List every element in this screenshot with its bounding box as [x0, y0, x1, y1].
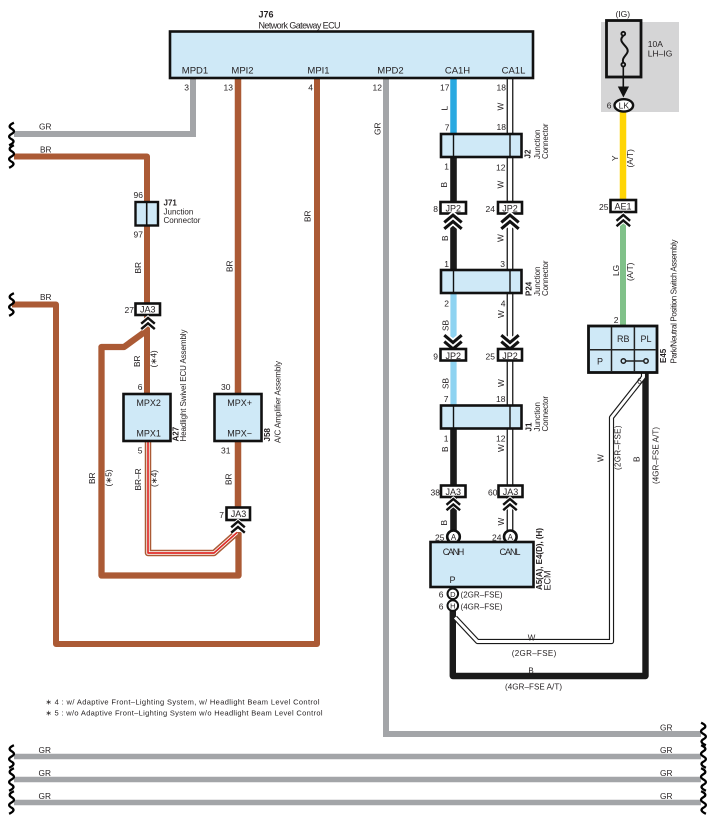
pin number 6 MPX2 — [138, 382, 143, 392]
svg-text:B: B — [439, 182, 449, 188]
label W JA3 60 to circle A — [496, 518, 506, 526]
wire GR from MPD2 pin 12 to bottom right edge — [386, 76, 701, 734]
svg-text:W: W — [496, 181, 506, 189]
pin number 2 E45 — [614, 315, 619, 325]
connector AE1 pin 25 box — [611, 200, 637, 212]
label Connector (J1) — [541, 396, 550, 432]
svg-text:Connector: Connector — [164, 216, 201, 225]
svg-text:P: P — [449, 575, 455, 585]
wire BR branch loop (*5) from JA3 27 down, across, up to JA3 7 — [102, 331, 239, 576]
svg-text:B: B — [439, 520, 449, 526]
svg-text:(A/T): (A/T) — [625, 149, 635, 168]
wire BR-R from MPX1 pin 5 to JA3 7 (brown with red stripe) — [148, 441, 237, 553]
svg-text:1: 1 — [444, 259, 449, 269]
svg-text:CA1H: CA1H — [445, 66, 470, 77]
svg-text:CA1L: CA1L — [502, 66, 526, 77]
svg-text:GR: GR — [39, 768, 51, 778]
pin number 25 JP2 — [486, 352, 496, 362]
label LG on green wire — [611, 265, 621, 276]
label J71 — [164, 199, 178, 208]
switch symbol inside E45 — [621, 359, 648, 363]
svg-text:MPX−: MPX− — [227, 429, 252, 439]
label LH-IG — [648, 49, 673, 59]
svg-text:∗ 5 : w/o Adaptive Front–Light: ∗ 5 : w/o Adaptive Front–Lighting System… — [46, 709, 323, 718]
pin number 5 MPX1 — [138, 446, 143, 456]
wire BR left edge to J71 to JA3 27 to MPX2 pin 6 — [14, 157, 147, 395]
label MPX2 — [136, 398, 161, 408]
label MPX1 — [136, 429, 161, 439]
svg-text:2: 2 — [444, 299, 449, 309]
svg-text:(4GR–FSE): (4GR–FSE) — [461, 603, 503, 612]
svg-text:13: 13 — [224, 83, 234, 93]
svg-text:BR: BR — [40, 145, 52, 155]
pin number 7 J2 — [445, 123, 450, 133]
label W P24 to JP2 25 — [496, 310, 506, 318]
label (2GR-FSE) at D — [461, 591, 503, 600]
label P inside ECM — [449, 575, 455, 585]
svg-text:JA3: JA3 — [140, 305, 156, 315]
junction connector JA3 pin 7 box — [227, 508, 251, 521]
svg-text:W: W — [596, 454, 606, 462]
pin number 38 JA3 — [431, 488, 441, 498]
chevron below JA3 7 — [231, 522, 245, 533]
svg-text:J2: J2 — [524, 149, 533, 158]
label W JP2 25 to J1 — [496, 379, 506, 387]
svg-text:Connector: Connector — [541, 396, 550, 432]
node A circle at ECM pin 25 — [447, 531, 460, 544]
label (4GR-FSE A/T) vertical — [652, 427, 661, 484]
label MPX+ — [227, 398, 252, 408]
fuse output arrow to LK — [618, 67, 629, 98]
label BR on MPI1 wire — [303, 210, 313, 222]
pin number 6 H — [439, 602, 444, 612]
svg-text:(2GR–FSE): (2GR–FSE) — [512, 649, 557, 658]
label JA3 (pin 27 box) — [140, 305, 156, 315]
pin number 18 J2 — [497, 122, 507, 132]
svg-text:3: 3 — [500, 259, 505, 269]
svg-text:30: 30 — [221, 382, 231, 392]
pin number 30 J58 — [221, 382, 231, 392]
pin number 96 J71 — [134, 190, 144, 200]
fuse 10A LH-IG box — [607, 21, 642, 78]
svg-text:18: 18 — [496, 394, 506, 404]
junction connector JP2 pin 24 box — [498, 202, 522, 214]
wire LG green from AE1 to E45 pin 2 — [620, 218, 626, 330]
pin number 2 P24 — [444, 299, 449, 309]
label B JA3 38 to circle A — [439, 520, 449, 526]
junction connector P24 bar — [441, 270, 522, 293]
svg-text:JA3: JA3 — [231, 509, 247, 519]
svg-text:(2GR–FSE): (2GR–FSE) — [461, 591, 503, 600]
label A27 — [172, 426, 181, 441]
label GR bottom right 1 — [660, 723, 672, 733]
svg-text:MPD1: MPD1 — [182, 66, 208, 77]
label A5(A), E4(D), (H) — [535, 528, 544, 590]
svg-text:JP2: JP2 — [446, 351, 462, 361]
label BR on J71-JA3 wire — [133, 262, 143, 274]
break symbol GR right 2 — [701, 745, 706, 768]
svg-text:LK: LK — [619, 100, 630, 110]
label Junction (P24) — [533, 267, 542, 297]
svg-text:MPI2: MPI2 — [231, 66, 253, 77]
svg-text:(∗4): (∗4) — [149, 350, 159, 367]
fuse background panel — [601, 22, 679, 112]
svg-text:18: 18 — [497, 122, 507, 132]
label CANH — [443, 547, 465, 557]
wire B black from ECM pin 6 (H) to E45 pin 6 — [453, 370, 646, 676]
wire GR bottom 1 — [14, 754, 701, 760]
label JA3 (pin 60 box) — [503, 487, 519, 497]
svg-text:B: B — [528, 667, 533, 676]
junction connector J1 bar — [441, 406, 522, 429]
label J76 — [259, 10, 274, 20]
label Junction (J1) — [533, 402, 542, 432]
wire W white from ECM pin 6 (D) to E45 pin 6 — [455, 372, 644, 642]
svg-text:Connector: Connector — [541, 260, 550, 296]
label (*5) — [104, 469, 114, 486]
pin number 24 JP2 — [486, 204, 496, 214]
pin number 12 J1 — [496, 434, 506, 444]
svg-text:JA3: JA3 — [446, 487, 462, 497]
svg-text:E45: E45 — [659, 348, 668, 363]
label Y on yellow wire — [610, 155, 620, 161]
svg-text:W: W — [528, 634, 536, 643]
label AE1 — [614, 202, 631, 212]
junction connector JA3 pin 38 box — [441, 486, 466, 498]
svg-text:27: 27 — [125, 305, 135, 315]
svg-text:2: 2 — [614, 315, 619, 325]
svg-text:W: W — [496, 103, 506, 111]
label (4GR-FSE) at H — [461, 603, 503, 612]
svg-text:W: W — [496, 379, 506, 387]
svg-text:25: 25 — [486, 352, 496, 362]
connector J58 A/C Amplifier box — [215, 394, 262, 441]
label Junction (J2) — [533, 130, 542, 160]
svg-text:Network Gateway ECU: Network Gateway ECU — [259, 21, 341, 31]
label Junction (J71) — [164, 208, 194, 217]
label B J1 to JA3 38 — [440, 446, 450, 452]
svg-text:MPX1: MPX1 — [136, 429, 161, 439]
wire B black from J2 to P24 — [450, 145, 457, 281]
pin number 31 J58 — [221, 446, 231, 456]
svg-text:JP2: JP2 — [502, 204, 518, 214]
svg-text:5: 5 — [138, 446, 143, 456]
label P24 — [525, 281, 534, 296]
svg-text:H: H — [450, 602, 455, 611]
label B J2 to JP2 8 — [439, 182, 449, 188]
svg-text:J76: J76 — [259, 10, 274, 20]
svg-text:ECM: ECM — [543, 571, 553, 591]
svg-text:PL: PL — [640, 334, 651, 344]
label BR J58 to JA3 7 — [224, 473, 234, 485]
pin name CA1H — [445, 66, 470, 77]
svg-text:B: B — [440, 235, 450, 241]
label GR bottom right 4 — [660, 791, 672, 801]
pin number 6 LK — [607, 101, 612, 111]
wire L blue from CA1H pin 17 to J2 — [450, 76, 457, 145]
pin number 6 E45 — [637, 376, 642, 386]
svg-text:JP2: JP2 — [502, 351, 518, 361]
label GR bottom right 2 — [660, 745, 672, 755]
pin number 4 P24 — [501, 299, 506, 309]
svg-text:Park/Neutral Position Switch A: Park/Neutral Position Switch Assembly — [670, 240, 679, 364]
svg-text:JP2: JP2 — [446, 204, 462, 214]
pin number 1 J1 — [444, 434, 449, 444]
svg-text:10A: 10A — [648, 39, 663, 49]
label B on black vertical wire — [632, 456, 642, 462]
label J2 — [524, 149, 533, 158]
svg-text:GR: GR — [373, 123, 383, 135]
break symbol GR top left — [9, 123, 14, 146]
pin number 24 ECM — [492, 533, 502, 543]
label BR top left — [40, 145, 52, 155]
label W J1 to JA3 60 — [496, 444, 506, 452]
svg-text:6: 6 — [607, 101, 612, 111]
svg-text:BR: BR — [303, 210, 313, 222]
junction connector J2 bar — [441, 134, 522, 157]
svg-text:(4GR–FSE A/T): (4GR–FSE A/T) — [652, 427, 661, 484]
node label A (CANL) — [508, 533, 514, 542]
node D circle at ECM pin 6 — [448, 589, 459, 600]
ECM box — [431, 542, 534, 587]
label B on ECM-E45 black wire horizontal — [528, 667, 533, 676]
svg-text:(IG): (IG) — [615, 9, 630, 19]
connector LK oval — [615, 99, 634, 111]
svg-text:25: 25 — [435, 533, 445, 543]
svg-text:W: W — [496, 444, 506, 452]
pin number 18 — [497, 83, 507, 93]
wire W white from CA1L pin 18 to ECM CANL circle A — [507, 76, 514, 532]
label (IG) — [615, 9, 630, 19]
svg-text:MPD2: MPD2 — [377, 66, 403, 77]
svg-text:1: 1 — [444, 434, 449, 444]
label Connector (J2) — [541, 123, 550, 159]
label JP2 (pin 24 box) — [502, 204, 518, 214]
label GR top left — [39, 122, 51, 132]
label Park/Neutral Position Switch Assembly — [670, 240, 679, 364]
label Connector (J71) — [164, 216, 201, 225]
label W on ECM-E45 white wire horizontal — [528, 634, 536, 643]
label J58 — [263, 428, 272, 442]
pin number 13 — [224, 83, 234, 93]
svg-text:3: 3 — [184, 83, 189, 93]
label BR-R — [133, 468, 143, 490]
wire B black from J1 to ECM CANH circle A — [450, 417, 457, 532]
pin number 1 J2 — [444, 162, 449, 172]
svg-text:17: 17 — [440, 83, 450, 93]
break symbol BR mid left — [9, 293, 14, 316]
svg-text:(2GR–FSE): (2GR–FSE) — [614, 425, 623, 470]
label (*4) BR-R — [149, 470, 159, 487]
svg-text:24: 24 — [486, 204, 496, 214]
label W J2 to JP2 24 — [496, 181, 506, 189]
label (A/T) green — [625, 262, 635, 281]
chevron below AE1 — [617, 215, 631, 226]
label (A/T) yellow — [625, 149, 635, 168]
svg-text:1: 1 — [444, 162, 449, 172]
junction connector JA3 pin 60 box — [499, 486, 523, 498]
svg-text:7: 7 — [445, 123, 450, 133]
label BR mid left — [40, 292, 52, 302]
pin number 25 AE1 — [599, 202, 609, 212]
chevron below JP2 24 — [501, 215, 518, 229]
label GR bottom left 2 — [39, 745, 51, 755]
svg-text:6: 6 — [439, 602, 444, 612]
svg-text:B: B — [440, 446, 450, 452]
svg-text:(∗4): (∗4) — [149, 470, 159, 487]
svg-text:J71: J71 — [164, 199, 178, 208]
svg-text:4: 4 — [501, 299, 506, 309]
svg-text:4: 4 — [308, 83, 313, 93]
svg-text:W: W — [496, 518, 506, 526]
label GR on MPD2 wire — [373, 123, 383, 135]
svg-text:BR: BR — [132, 355, 142, 367]
label L on CA1H wire — [440, 106, 450, 111]
svg-text:BR: BR — [224, 473, 234, 485]
svg-text:P: P — [597, 357, 603, 367]
pin name PL — [640, 334, 651, 344]
chevron below JA3 38 — [447, 499, 461, 510]
label (2GR-FSE) vertical — [614, 425, 623, 470]
svg-text:∗ 4 : w/ Adaptive Front–Lighti: ∗ 4 : w/ Adaptive Front–Lighting System,… — [46, 698, 320, 707]
pin number 27 JA3 — [125, 305, 135, 315]
junction connector J71 box — [136, 202, 159, 226]
svg-text:12: 12 — [373, 83, 383, 93]
svg-text:MPX+: MPX+ — [227, 398, 252, 408]
svg-text:AE1: AE1 — [614, 202, 631, 212]
pin number 7 J1 — [444, 394, 449, 404]
svg-text:GR: GR — [660, 745, 672, 755]
svg-text:6: 6 — [138, 382, 143, 392]
svg-text:12: 12 — [496, 163, 506, 173]
svg-text:25: 25 — [599, 202, 609, 212]
chevron below JA3 27 — [141, 318, 155, 329]
label J1 — [525, 422, 534, 431]
label Connector (P24) — [541, 260, 550, 296]
svg-text:24: 24 — [492, 533, 502, 543]
svg-text:GR: GR — [39, 791, 51, 801]
svg-text:97: 97 — [134, 230, 144, 240]
pin number 18 J1 — [496, 394, 506, 404]
pin number 12 J2 — [496, 163, 506, 173]
pin name MPI1 — [307, 66, 329, 77]
svg-text:SB: SB — [441, 377, 451, 389]
svg-text:60: 60 — [488, 488, 498, 498]
pin number 3 — [184, 83, 189, 93]
svg-text:LG: LG — [611, 265, 621, 276]
label JA3 (pin 38 box) — [446, 487, 462, 497]
svg-text:W: W — [496, 234, 506, 242]
svg-text:RB: RB — [617, 334, 630, 344]
label CANL — [500, 547, 521, 557]
pin number 60 JA3 — [488, 488, 498, 498]
label SB JP2 9 to J1 — [441, 377, 451, 389]
label GR bottom right 3 — [660, 768, 672, 778]
label Network Gateway ECU — [259, 21, 341, 31]
break symbol GR bottom left 2 — [9, 768, 14, 791]
svg-text:(A/T): (A/T) — [625, 262, 635, 281]
svg-text:GR: GR — [660, 791, 672, 801]
label E45 — [659, 348, 668, 363]
svg-text:BR–R: BR–R — [133, 468, 143, 490]
chevron below JP2 8 — [444, 215, 461, 229]
label ECM — [543, 571, 553, 591]
pin name MPD2 — [377, 66, 403, 77]
node H circle at ECM pin 6 — [448, 600, 459, 611]
wire Y yellow from fuse LK to AE1 — [620, 108, 627, 206]
svg-text:BR: BR — [87, 472, 97, 484]
break symbol GR right 3 — [701, 768, 706, 791]
label SB P24 to JP2 9 — [441, 319, 451, 331]
label JP2 (pin 25 box) — [502, 351, 518, 361]
svg-text:GR: GR — [660, 768, 672, 778]
break symbol GR bottom left 3 — [9, 791, 14, 814]
wire GR bottom 2 — [14, 777, 701, 783]
pin number 7 JA3 — [219, 510, 224, 520]
svg-text:MPI1: MPI1 — [307, 66, 329, 77]
svg-text:GR: GR — [39, 745, 51, 755]
svg-text:LH–IG: LH–IG — [648, 49, 673, 59]
svg-text:6: 6 — [439, 590, 444, 600]
wire BR from MPI2 pin 13 through J58 to JA3 7 — [235, 76, 242, 519]
wire GR from MPD1 pin 3 to left edge — [14, 76, 193, 134]
pin name P (E45) — [597, 357, 603, 367]
pin number 9 JP2 — [433, 352, 438, 362]
label B JP2 to P24 — [440, 235, 450, 241]
label (4GR-FSE A/T) horizontal — [505, 683, 562, 692]
junction connector JP2 pin 8 box — [441, 202, 467, 214]
pin number 97 J71 — [134, 230, 144, 240]
svg-text:(∗5): (∗5) — [104, 469, 114, 486]
label (*4) above MPX2 — [149, 350, 159, 367]
svg-text:A: A — [508, 533, 514, 542]
connector J76 Network Gateway ECU box — [170, 32, 533, 79]
label BR (*5) — [87, 472, 97, 484]
node label A (CANH) — [451, 533, 457, 542]
svg-text:18: 18 — [497, 83, 507, 93]
break symbol GR bottom left 1 — [9, 745, 14, 768]
svg-text:96: 96 — [134, 190, 144, 200]
chevron above JP2 25 (pointing down) — [501, 335, 518, 349]
label GR bottom left 4 — [39, 791, 51, 801]
svg-text:CANH: CANH — [443, 547, 465, 557]
break symbol BR left — [9, 145, 14, 168]
svg-text:MPX2: MPX2 — [136, 398, 161, 408]
svg-text:SB: SB — [441, 319, 451, 331]
break symbol GR right 1 — [701, 723, 706, 746]
wire BR from MPI1 pin 4 down, across bottom, up to left edge break — [12, 76, 317, 644]
pin name MPI2 — [231, 66, 253, 77]
svg-text:CANL: CANL — [500, 547, 521, 557]
pin name RB — [617, 334, 630, 344]
connector A27 Headlight Swivel ECU box — [124, 394, 171, 441]
footnote *5 — [46, 709, 323, 718]
label JP2 (pin 9 box) — [446, 351, 462, 361]
node label H — [450, 602, 455, 611]
junction connector JA3 pin 27 box — [136, 304, 161, 316]
pin number 3 P24 — [500, 259, 505, 269]
svg-text:Connector: Connector — [541, 123, 550, 159]
label W JP2 to P24 — [496, 234, 506, 242]
pin number 25 ECM — [435, 533, 445, 543]
pin name MPD1 — [182, 66, 208, 77]
svg-text:L: L — [440, 106, 450, 111]
label BR on MPI2 wire — [225, 260, 235, 272]
svg-text:GR: GR — [39, 122, 51, 132]
svg-text:BR: BR — [40, 292, 52, 302]
svg-text:8: 8 — [433, 204, 438, 214]
label LK — [619, 100, 630, 110]
